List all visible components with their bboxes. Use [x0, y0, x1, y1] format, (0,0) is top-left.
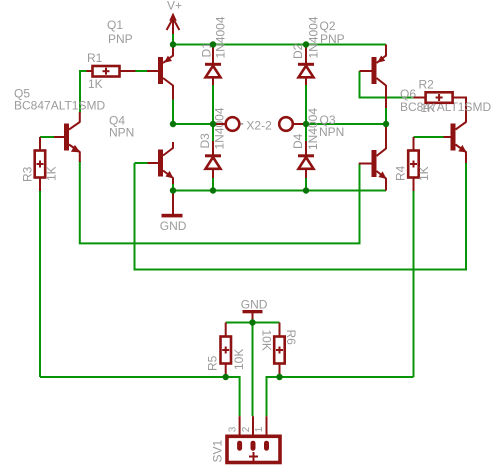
- wire Q2 collector to mid-right junction: [385, 107, 387, 124]
- transistor Q5 NPN: [54, 112, 80, 162]
- wire mid row right: [306, 123, 386, 125]
- svg-text:Q2: Q2: [320, 19, 336, 33]
- wire D4 cathode column: [305, 124, 307, 142]
- wire Q1 collector to mid-left junction: [172, 99, 174, 124]
- svg-text:10K: 10K: [260, 330, 274, 351]
- svg-text:R3: R3: [21, 166, 35, 182]
- node junction D2 top: [303, 41, 309, 47]
- node junction GND2: [249, 319, 255, 325]
- wire bottom row: [173, 190, 386, 192]
- svg-text:SV1: SV1: [211, 439, 225, 462]
- wire R4 bottom long right column: [413, 191, 415, 378]
- svg-text:GND: GND: [241, 298, 268, 312]
- diode D1 1N4004: [205, 46, 221, 85]
- wire bottom-left row to SV1 pin 3: [40, 377, 240, 416]
- svg-text:2: 2: [241, 426, 252, 432]
- node junction R6 bottom: [276, 374, 282, 380]
- wire bottom-right row to SV1 pin 1: [267, 377, 414, 416]
- connector pin X2-2 left: [214, 117, 243, 131]
- svg-text:1K: 1K: [88, 77, 103, 91]
- resistor R5: [221, 323, 232, 378]
- svg-text:1N4004: 1N4004: [213, 107, 227, 149]
- node junction mid left: [170, 121, 176, 127]
- svg-text:NPN: NPN: [109, 126, 134, 140]
- svg-text:NPN: NPN: [319, 125, 344, 139]
- wire R1 right to Q1 base: [135, 70, 147, 72]
- transistor Q2 PNP: [360, 45, 387, 109]
- node junction V+ rail: [170, 41, 176, 47]
- node junction D1-D3: [210, 121, 216, 127]
- wire A Q5 emitter to Q3 base: [80, 161, 360, 243]
- resistor R6: [274, 323, 285, 378]
- wire R1 left to Q5 collector: [80, 71, 88, 113]
- transistor Q3 NPN: [359, 127, 387, 191]
- wire Q4 base stub: [135, 162, 148, 164]
- svg-text:X2-2: X2-2: [246, 119, 272, 133]
- svg-text:3: 3: [227, 426, 238, 432]
- svg-text:R4: R4: [394, 165, 408, 181]
- resistor R1: [87, 66, 136, 77]
- node junction D3 anode: [210, 187, 216, 193]
- wire mid row left: [173, 123, 213, 125]
- svg-text:R1: R1: [87, 51, 103, 65]
- svg-text:1N4004: 1N4004: [306, 108, 320, 150]
- svg-text:R6: R6: [284, 330, 298, 346]
- resistor R3: [35, 137, 46, 191]
- wire GND2 row R5 to R6: [226, 322, 280, 324]
- wire top rail: [173, 44, 386, 46]
- wire D1 anode column: [212, 84, 214, 124]
- svg-text:1K: 1K: [45, 166, 59, 181]
- transistor Q6 NPN: [444, 98, 467, 163]
- wire D4 anode to bottom row: [305, 177, 307, 191]
- svg-text:D4: D4: [291, 133, 305, 149]
- svg-text:D3: D3: [198, 133, 212, 149]
- wire D2 anode column: [305, 84, 307, 124]
- transistor Q4 NPN: [148, 142, 174, 184]
- diode D4 1N4004: [298, 141, 314, 178]
- svg-text:10K: 10K: [232, 349, 246, 370]
- wire V+ to top rail: [172, 34, 174, 45]
- wire Q2 base down and right to R2: [360, 71, 415, 98]
- node junction D2-D4: [303, 121, 309, 127]
- svg-text:GND: GND: [160, 219, 187, 233]
- svg-text:1K: 1K: [417, 166, 431, 181]
- node junction D1 top: [210, 41, 216, 47]
- node junction R5 bottom: [223, 374, 229, 380]
- connector SV1: [227, 416, 280, 462]
- wire Q4 emitter to bottom row: [172, 183, 174, 191]
- node junction mid right: [383, 121, 389, 127]
- svg-text:R5: R5: [206, 355, 220, 371]
- wire Q6 base to R4 top: [414, 136, 445, 138]
- diode D2 1N4004: [298, 46, 314, 85]
- svg-text:PNP: PNP: [108, 32, 133, 46]
- svg-text:1K: 1K: [421, 101, 436, 115]
- svg-text:R2: R2: [419, 78, 435, 92]
- svg-text:V+: V+: [167, 0, 182, 13]
- wire Q5 base to R3 top: [40, 136, 54, 138]
- wire B Q4 base to Q6 emitter: [135, 162, 467, 270]
- ground GND1: [162, 193, 183, 217]
- svg-text:BC847ALT1SMD: BC847ALT1SMD: [14, 99, 105, 113]
- wire R3 bottom long left column: [39, 191, 41, 378]
- wire bottom junction to GND1: [172, 191, 174, 196]
- svg-text:1: 1: [254, 426, 265, 432]
- svg-text:1N4004: 1N4004: [307, 16, 321, 58]
- wire D3 cathode column: [212, 124, 214, 142]
- wire GND2 to SV1 pin 2: [252, 323, 254, 417]
- svg-text:PNP: PNP: [320, 32, 345, 46]
- svg-text:1N4004: 1N4004: [214, 16, 228, 58]
- svg-text:D2: D2: [291, 43, 305, 59]
- svg-text:Q1: Q1: [107, 18, 123, 32]
- power V+ symbol: [167, 13, 180, 35]
- wire mid-right junction to Q3 collector: [385, 124, 387, 128]
- node junction D4 anode: [303, 187, 309, 193]
- resistor R4: [408, 137, 419, 191]
- transistor Q1 PNP: [147, 45, 173, 100]
- diode D3 1N4004: [205, 141, 221, 178]
- ground GND2: [243, 310, 263, 322]
- resistor R2: [414, 92, 466, 103]
- wire D3 anode to bottom row: [212, 177, 214, 191]
- connector pin X2-1 right: [279, 117, 304, 131]
- node junction bottom left: [170, 187, 176, 193]
